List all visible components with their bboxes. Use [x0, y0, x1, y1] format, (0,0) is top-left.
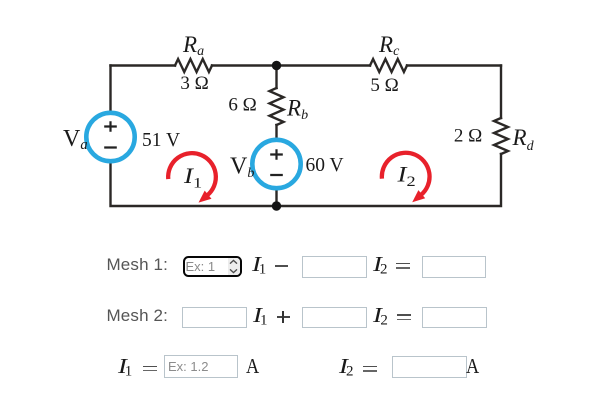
svg-text:Ra: Ra [182, 32, 204, 59]
svg-text:2 Ω: 2 Ω [454, 126, 482, 147]
svg-text:3 Ω: 3 Ω [180, 73, 208, 94]
svg-text:5 Ω: 5 Ω [370, 75, 398, 96]
svg-text:Rc: Rc [378, 32, 400, 59]
svg-text:Va: Va [63, 126, 88, 153]
svg-text:Rd: Rd [512, 125, 535, 154]
svg-text:Rb: Rb [286, 96, 308, 124]
svg-text:Vb: Vb [230, 154, 254, 182]
svg-text:I2: I2 [396, 163, 415, 190]
svg-text:6 Ω: 6 Ω [228, 95, 256, 116]
svg-text:51 V: 51 V [142, 130, 180, 151]
svg-text:60 V: 60 V [306, 155, 344, 176]
svg-text:I1: I1 [183, 164, 202, 191]
